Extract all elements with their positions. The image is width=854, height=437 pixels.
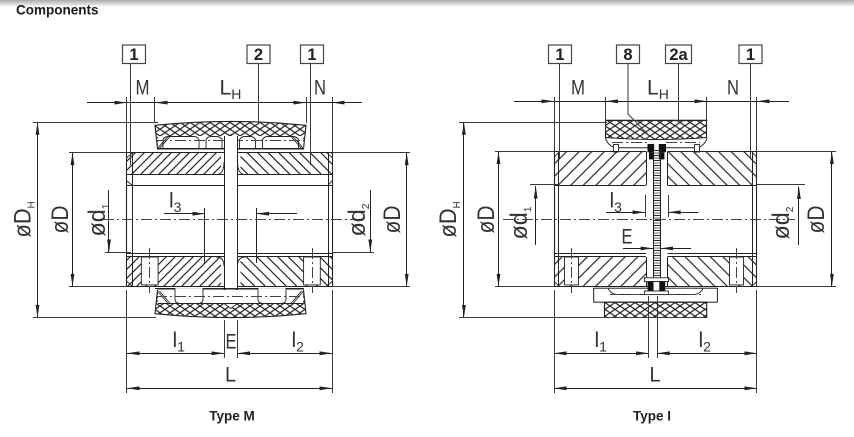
svg-text:Components: Components xyxy=(16,3,99,18)
svg-text:ød2: ød2 xyxy=(768,206,796,239)
svg-text:l1: l1 xyxy=(595,329,608,355)
svg-text:L: L xyxy=(225,364,236,387)
svg-text:1: 1 xyxy=(307,46,316,64)
svg-text:øDH: øDH xyxy=(10,202,38,238)
svg-text:LH: LH xyxy=(647,77,669,103)
svg-text:2a: 2a xyxy=(669,46,688,64)
svg-text:øDH: øDH xyxy=(435,202,463,238)
svg-text:M: M xyxy=(571,77,585,100)
svg-text:E: E xyxy=(226,331,237,354)
svg-text:1: 1 xyxy=(555,46,564,64)
svg-text:N: N xyxy=(314,77,326,100)
svg-text:øD: øD xyxy=(803,206,830,234)
svg-text:l1: l1 xyxy=(173,329,186,355)
svg-text:ød2: ød2 xyxy=(344,203,372,236)
svg-text:2: 2 xyxy=(254,46,263,64)
svg-text:ød1: ød1 xyxy=(84,203,112,236)
svg-text:øD: øD xyxy=(379,206,406,234)
svg-text:Type I: Type I xyxy=(633,409,671,424)
svg-text:1: 1 xyxy=(746,46,755,64)
svg-text:Type M: Type M xyxy=(209,409,255,424)
svg-text:l3: l3 xyxy=(610,190,623,216)
svg-text:1: 1 xyxy=(129,46,138,64)
svg-text:l3: l3 xyxy=(169,190,182,216)
svg-text:l2: l2 xyxy=(292,329,305,355)
svg-text:M: M xyxy=(136,77,150,100)
svg-text:L: L xyxy=(650,364,661,387)
svg-text:ød1: ød1 xyxy=(506,206,534,239)
svg-text:øD: øD xyxy=(47,206,74,234)
svg-text:øD: øD xyxy=(473,206,500,234)
svg-text:l2: l2 xyxy=(699,329,712,355)
svg-text:8: 8 xyxy=(623,46,632,64)
svg-text:N: N xyxy=(727,77,739,100)
svg-text:E: E xyxy=(622,226,633,249)
svg-text:LH: LH xyxy=(220,77,242,103)
